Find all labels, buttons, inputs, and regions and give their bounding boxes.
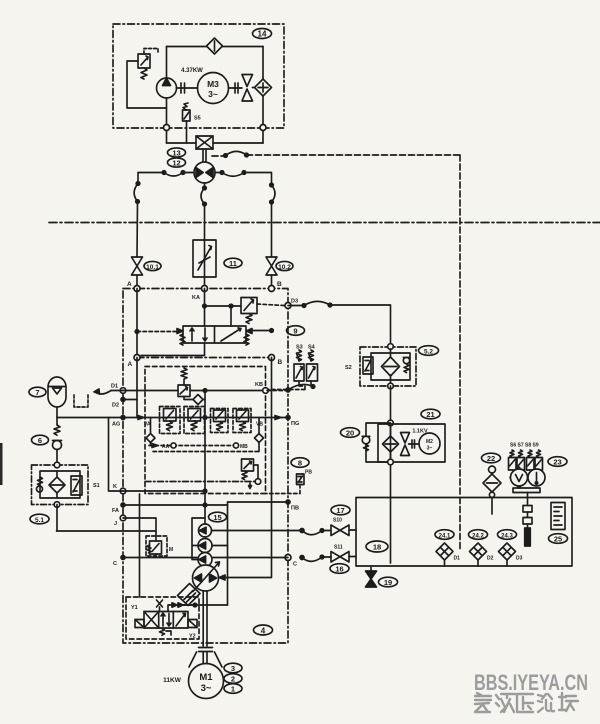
node filter outlet: [54, 502, 60, 508]
node cooler outlet: [388, 459, 394, 465]
svg-text:D3: D3: [516, 556, 523, 562]
servo cylinder (angled): [178, 584, 201, 606]
wire: filter outlet down and right: [56, 505, 58, 532]
pilot dash-dot line to V node: [145, 481, 255, 483]
wire: return pipe into tank: [390, 498, 392, 564]
label 16: [330, 564, 349, 574]
label 9: [287, 326, 305, 336]
accumulator 7: [48, 377, 66, 407]
shut-off valve block (box with X): [196, 136, 213, 149]
label 14: [253, 29, 272, 39]
pilot dash from S3 S4 to KB: [267, 381, 311, 390]
svg-text:3: 3: [231, 664, 235, 673]
wire: breather stub into tank: [491, 498, 493, 515]
svg-text:9: 9: [293, 327, 297, 336]
wire: relief left loop: [127, 61, 167, 108]
pressure switch S4: [307, 345, 318, 382]
return filter 5.1 (dashed box): [32, 465, 89, 505]
svg-text:15: 15: [213, 513, 221, 522]
wire: left vertical to pump: [166, 47, 168, 79]
flow control valve 11: [193, 240, 216, 277]
wire: KA line down: [204, 289, 206, 327]
machine boundary box 4 (dash-dot): [123, 289, 288, 644]
cooler motor M2: [419, 433, 440, 454]
svg-text:21: 21: [426, 410, 434, 419]
svg-text:23: 23: [553, 458, 561, 467]
bell housing: [189, 652, 222, 667]
valve S5: [183, 103, 201, 143]
svg-text:MB: MB: [240, 444, 248, 450]
svg-text:D1: D1: [454, 556, 461, 562]
relief valve group b (dashed): [184, 407, 205, 434]
watermark chinese: [475, 693, 578, 712]
wire: main gallery line AG to PG: [57, 417, 288, 419]
wire: AG branch down to K: [109, 418, 124, 492]
svg-text:S10: S10: [333, 518, 342, 524]
node A top: [127, 281, 140, 292]
svg-text:ПB: ПB: [291, 506, 299, 512]
node J: [114, 515, 126, 527]
directional valve 9 (solenoid 2-pos): [177, 326, 252, 345]
main variable pump: [193, 562, 220, 592]
filter 5.1 internals: [37, 471, 83, 498]
svg-text:18: 18: [373, 543, 381, 552]
pump P3 (circle with up arrow): [157, 78, 177, 98]
svg-text:24.2: 24.2: [472, 534, 484, 540]
motor M3: [198, 73, 229, 104]
wire: drain pipe into tank (dashed): [459, 498, 461, 552]
svg-text:D2: D2: [112, 403, 119, 409]
svg-text:11: 11: [229, 259, 237, 268]
svg-text:C: C: [293, 562, 297, 568]
svg-text:M: M: [169, 547, 173, 553]
wire: valve 9 drain: [141, 343, 205, 356]
node D1: [111, 384, 126, 394]
node D2: [112, 398, 137, 409]
label 13: [168, 148, 186, 158]
wire: inner circuit top line: [167, 46, 264, 48]
level indicator 25: [551, 503, 565, 530]
heat exchanger diamond: [383, 428, 399, 462]
motor M1: [189, 664, 224, 699]
junction on KB line: [203, 389, 207, 393]
wire: suction manifold for gear pumps: [192, 518, 205, 560]
label 5.1: [30, 514, 49, 524]
svg-text:PB: PB: [305, 470, 312, 476]
filter 5.2 internals: [371, 349, 410, 383]
inner A-B dash-dot line: [137, 357, 272, 359]
pressure switch S3: [294, 345, 304, 382]
check coupling diamond (right branch): [255, 79, 272, 96]
svg-text:5.2: 5.2: [424, 349, 433, 356]
label 17: [331, 505, 350, 515]
node filter 5.2 outlet: [388, 383, 394, 389]
heater 24.2: [469, 530, 494, 566]
thermometer circle: [528, 469, 545, 486]
svg-text:10.1: 10.1: [146, 264, 159, 271]
svg-text:25: 25: [554, 535, 562, 544]
label 1: [224, 684, 242, 694]
node FA: [112, 503, 125, 514]
relief valve group c (dashed): [211, 409, 229, 433]
label 20: [341, 428, 360, 438]
drive shaft (double line): [203, 591, 207, 646]
svg-text:19: 19: [384, 578, 392, 587]
node: unit14 right outlet: [260, 125, 266, 131]
svg-text:13: 13: [172, 149, 180, 158]
node PG right: [286, 416, 299, 428]
label 23: [548, 457, 567, 467]
shaft from block to rotary union (double line): [203, 149, 206, 163]
shut-off valve 10.2 (bowtie): [266, 257, 277, 275]
blocked port X: [157, 600, 163, 612]
svg-text:C: C: [113, 561, 117, 567]
svg-text:1: 1: [231, 685, 235, 694]
wire: D3 hose line to pressure filter: [288, 301, 391, 343]
label 10.2: [276, 261, 293, 271]
cooler bypass check 20: [362, 423, 390, 462]
svg-text:D2: D2: [487, 556, 494, 562]
reservoir tank 18: [356, 498, 572, 567]
wire: C tank line across: [123, 557, 288, 559]
node cooler inlet: [388, 420, 394, 426]
svg-text:5.1: 5.1: [35, 517, 44, 524]
label 18: [366, 541, 388, 552]
filler breather 22: [483, 466, 501, 497]
label 15: [209, 512, 227, 522]
junction dots on center line: [203, 416, 207, 507]
relief valve (unit 14): [138, 49, 158, 80]
cooler fan: [401, 433, 420, 456]
wire: stubs to box4 top: [137, 275, 272, 289]
svg-text:B: B: [277, 281, 282, 288]
svg-text:KA: KA: [192, 295, 200, 301]
svg-text:3~: 3~: [427, 446, 433, 452]
wire: KA branch to relief: [205, 306, 242, 326]
ball valve S10: [331, 518, 356, 536]
check valve diamond (compensator out): [184, 395, 205, 405]
heater 24.1: [435, 530, 460, 566]
svg-text:12: 12: [172, 159, 180, 168]
svg-text:S2: S2: [345, 365, 352, 371]
pilot unloader valve V: [242, 459, 261, 489]
svg-text:FA: FA: [112, 508, 119, 514]
label 11: [224, 258, 242, 268]
svg-text:20: 20: [346, 429, 354, 438]
label 22: [482, 453, 501, 463]
wire: rotary drain (dash-dot) to tank riser with hose: [212, 151, 460, 497]
label 21: [421, 409, 440, 419]
ball valve S11: [331, 545, 356, 563]
svg-text:6: 6: [38, 436, 42, 445]
svg-text:10.2: 10.2: [278, 264, 291, 271]
svg-text:J: J: [114, 521, 117, 527]
wire: K suction line: [123, 490, 205, 492]
svg-text:M2: M2: [426, 439, 433, 445]
wire: right vertical branch: [262, 47, 264, 144]
shut-off valve 10.1 (bowtie): [132, 257, 143, 275]
rotary union / swivel joint: [194, 162, 215, 183]
drain valve 19 (filled): [366, 566, 377, 587]
svg-text:3~: 3~: [208, 89, 218, 99]
node PB right: [286, 500, 299, 512]
svg-text:3~: 3~: [201, 683, 212, 694]
gear pump 2: [198, 539, 212, 553]
spring check valve 6: [53, 418, 62, 463]
wire: P2 outlet riser to PB and down to Y-valve: [212, 505, 228, 605]
level gauge (V circle): [510, 467, 528, 488]
svg-text:Y1: Y1: [131, 605, 138, 611]
valve M (relief in pump block): [146, 536, 173, 558]
svg-text:24.1: 24.1: [439, 534, 451, 540]
pilot line valve9 to B line: [252, 329, 273, 333]
label 3: [224, 663, 242, 673]
svg-text:16: 16: [335, 565, 343, 574]
svg-text:8: 8: [298, 459, 302, 468]
svg-text:7: 7: [35, 388, 39, 397]
wire: P1 outlet to S10 coupling: [212, 530, 303, 532]
pilot dash line from A to valve 9: [137, 331, 176, 333]
wire: D1-KB line through compensator: [123, 390, 266, 392]
wire: filter to cooler: [390, 386, 392, 497]
gear pump 3: [198, 553, 212, 567]
svg-text:AG: AG: [112, 422, 120, 428]
svg-text:4: 4: [261, 627, 266, 636]
svg-text:M3: M3: [207, 79, 219, 89]
pressure filter 5.2 (dashed box): [360, 347, 416, 386]
node C left: [113, 556, 125, 568]
wire: J line to valve M: [123, 518, 156, 541]
svg-text:BBS.IYEYA.CN: BBS.IYEYA.CN: [474, 670, 588, 695]
wire: down from pump circuit to node: [166, 108, 168, 143]
wire: rotary bottom line with hose: [201, 183, 206, 240]
node filter 5.2 inlet: [388, 344, 394, 350]
label 6: [32, 435, 49, 445]
svg-text:S6 S7 S8 S9: S6 S7 S8 S9: [510, 443, 539, 449]
svg-text:A: A: [127, 281, 132, 288]
level switches S6 S7 S8 S9: [509, 443, 543, 471]
relief valve group 24.x-a (dashed): [160, 407, 181, 434]
svg-text:S5: S5: [194, 116, 201, 122]
svg-text:S11: S11: [334, 545, 343, 551]
node B top: [269, 281, 283, 292]
svg-text:D3: D3: [291, 299, 298, 305]
label 5.2: [419, 346, 439, 356]
hose to S11: [300, 555, 331, 561]
svg-text:B: B: [278, 359, 283, 366]
label 7: [29, 387, 46, 397]
label 25: [549, 534, 568, 544]
node C right: [285, 555, 297, 568]
gear pump 1: [199, 524, 212, 537]
heater 24.3: [498, 530, 523, 566]
drain line AA (dashed with test points): [149, 443, 248, 450]
zone separation line (dash-dot, full width): [49, 222, 600, 224]
hose to S10: [300, 529, 331, 535]
coupling: [199, 648, 213, 652]
node filter inlet: [54, 462, 60, 468]
check valve VB: [255, 418, 264, 452]
arrowhead into pump right port: [219, 575, 225, 580]
pilot line to D3 (dashed): [257, 304, 284, 306]
label 19: [379, 577, 398, 587]
wire: A line down: [136, 289, 138, 358]
node AG: [112, 416, 125, 428]
node KA top: [192, 286, 208, 302]
label 12: [168, 158, 186, 168]
svg-text:S1: S1: [93, 483, 100, 489]
svg-text:17: 17: [336, 506, 344, 515]
air filter (diamond, top of unit 14): [207, 38, 223, 54]
dashed drain from PB: [266, 485, 301, 494]
fan (bowtie) with shaft: [229, 75, 255, 102]
shaft pump-motor with coupling ticks: [177, 83, 198, 93]
wire: center pressure line down to pumps: [204, 391, 206, 525]
solenoid valve Y1/Y2: [131, 605, 197, 640]
node B inner: [269, 355, 283, 367]
mounting plate: [513, 488, 540, 493]
wire: FA to PB work line: [123, 502, 288, 505]
KB test hose stub right of box: [267, 384, 315, 392]
svg-text:ПG: ПG: [291, 421, 299, 427]
svg-text:4.37KW: 4.37KW: [181, 68, 203, 74]
svg-text:A: A: [128, 361, 133, 368]
svg-text:22: 22: [487, 454, 495, 463]
check valve in Y line: [168, 603, 228, 612]
svg-text:24.3: 24.3: [501, 534, 513, 540]
wire: rotary right main line with hose: [215, 171, 275, 257]
relief valve group d (dashed): [233, 409, 251, 433]
svg-text:1.1KV: 1.1KV: [412, 429, 428, 435]
drain line lower (dashed): [153, 451, 261, 453]
wire: lines into shut-off block: [167, 142, 264, 144]
label 2: [224, 674, 242, 684]
float switch stem: [523, 493, 532, 547]
wire: A line into manifold: [136, 358, 138, 418]
manifold block (dashed box): [145, 367, 266, 494]
scan artifact left edge: [0, 443, 3, 485]
control valve Y1/Y2 enclosure (dashed): [126, 597, 199, 639]
drain funnel (dashed) with arrow from D1: [74, 389, 123, 407]
junction on A line (pilot): [135, 330, 139, 334]
wire: accumulator to gallery: [56, 407, 58, 418]
label 8: [291, 458, 309, 468]
node D3: [285, 299, 298, 309]
label 10.1: [144, 261, 161, 271]
svg-text:11KW: 11KW: [163, 677, 182, 684]
label 4: [254, 625, 273, 636]
flow arrows on gallery: [138, 416, 281, 420]
check valve VA: [144, 418, 155, 446]
svg-text:14: 14: [258, 30, 267, 39]
svg-text:M1: M1: [199, 672, 213, 683]
svg-text:KB: KB: [255, 382, 263, 388]
node: unit14 left outlet: [164, 125, 170, 131]
wire: filter return line: [57, 530, 157, 532]
node K: [113, 484, 126, 494]
svg-text:D1: D1: [111, 384, 118, 390]
svg-text:K: K: [113, 484, 117, 490]
wire: servo link: [182, 603, 197, 607]
node A inner: [128, 355, 141, 369]
cooler unit box 21: [378, 424, 445, 462]
wire: rotary left main line with hose: [134, 171, 194, 257]
node KB: [255, 382, 268, 393]
svg-text:AA: AA: [162, 444, 170, 450]
pump unit boundary line: [139, 494, 141, 597]
pressure switch PB: [297, 470, 313, 485]
svg-text:2: 2: [231, 675, 235, 684]
power unit enclosure box 14 (dashed): [113, 24, 284, 128]
wire: B line down to main pump port: [220, 358, 272, 578]
pilot relief valve KA: [241, 298, 257, 324]
pressure compensator valve: [178, 368, 190, 397]
pressure indicator S2: [345, 357, 373, 374]
svg-text:Y2: Y2: [189, 634, 196, 640]
